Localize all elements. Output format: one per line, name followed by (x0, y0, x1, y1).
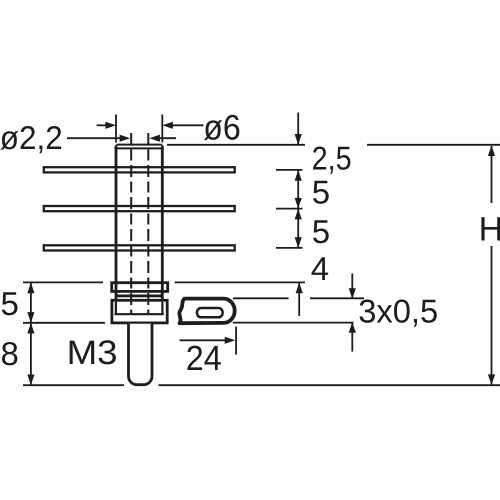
left dimension chain line (5 and 8) (30, 282, 32, 385)
o6 left extension line vertical (115, 115, 117, 143)
5 dim 1 arrows line (297, 171, 299, 209)
H dimension line (491, 146, 493, 385)
middle groove band (116, 295, 164, 298)
M3 stud (129, 324, 153, 385)
3x0,5 top boundary lines (233, 297, 364, 299)
svg-text:4: 4 (311, 250, 329, 287)
hidden hole dashed line left (130, 133, 132, 314)
svg-text:8: 8 (1, 335, 19, 372)
svg-text:5: 5 (1, 285, 19, 322)
fin1 center extension stub (276, 169, 303, 171)
H dimension arrowheads (488, 145, 495, 385)
left extension line at collar ring top (23, 281, 103, 283)
top extension line (body top level, broken around 2,5 label) (167, 144, 500, 146)
o6 right arrow (pointing left) with line to text (171, 124, 204, 126)
svg-text:H: H (479, 211, 500, 249)
svg-text:5: 5 (312, 213, 330, 250)
svg-text:2,5: 2,5 (312, 139, 352, 176)
4 dim outside arrow below ring-top line (298, 283, 300, 316)
side detail outer shape (fin side view with break line) (179, 299, 234, 324)
right chain: 2,5 outside arrow above top line (297, 113, 299, 145)
o2,2 right arrow (pointing left) (158, 137, 177, 139)
o2,2 leader line with right-pointing arrow (67, 137, 122, 139)
fin2 center extension stub (276, 208, 303, 210)
svg-text:5: 5 (312, 174, 330, 211)
side detail slot (197, 308, 223, 317)
fin 2 (44, 206, 235, 211)
o6 right extension line vertical (161, 115, 163, 143)
3x0,5 bottom boundary line (233, 322, 354, 324)
fin 1 (44, 167, 235, 172)
svg-text:3x0,5: 3x0,5 (358, 292, 438, 329)
big collar (112, 300, 167, 323)
body top cap (115, 145, 164, 149)
24 dimension arrow (180, 339, 226, 341)
hidden hole dashed line right (147, 133, 149, 314)
groove band side nubs (116, 292, 161, 296)
body right side (161, 147, 164, 300)
3x0,5 lower arrow (351, 323, 353, 351)
right extension line at ring top (4 dim boundary) (175, 281, 305, 283)
o6 left arrow (pointing right) (97, 124, 108, 126)
left extension line at collar bottom (23, 322, 105, 324)
fin 3 (44, 245, 235, 250)
svg-text:24: 24 (186, 339, 222, 378)
3x0,5 upper arrow (351, 273, 353, 298)
left chain arrowheads (27, 283, 34, 386)
svg-text:ø2,2: ø2,2 (0, 119, 63, 156)
svg-text:M3: M3 (67, 334, 118, 372)
24 dim extension line vertical (235, 327, 237, 355)
body left side (115, 147, 118, 300)
big collar inner lines (114, 302, 163, 315)
5 dim 2 arrows line (297, 209, 299, 248)
svg-text:ø6: ø6 (203, 108, 241, 148)
fin3 center extension stub (276, 247, 303, 249)
collar ring (grooves) (112, 283, 168, 292)
bottom extension line (stud bottom level, broken around stud) (23, 384, 500, 386)
